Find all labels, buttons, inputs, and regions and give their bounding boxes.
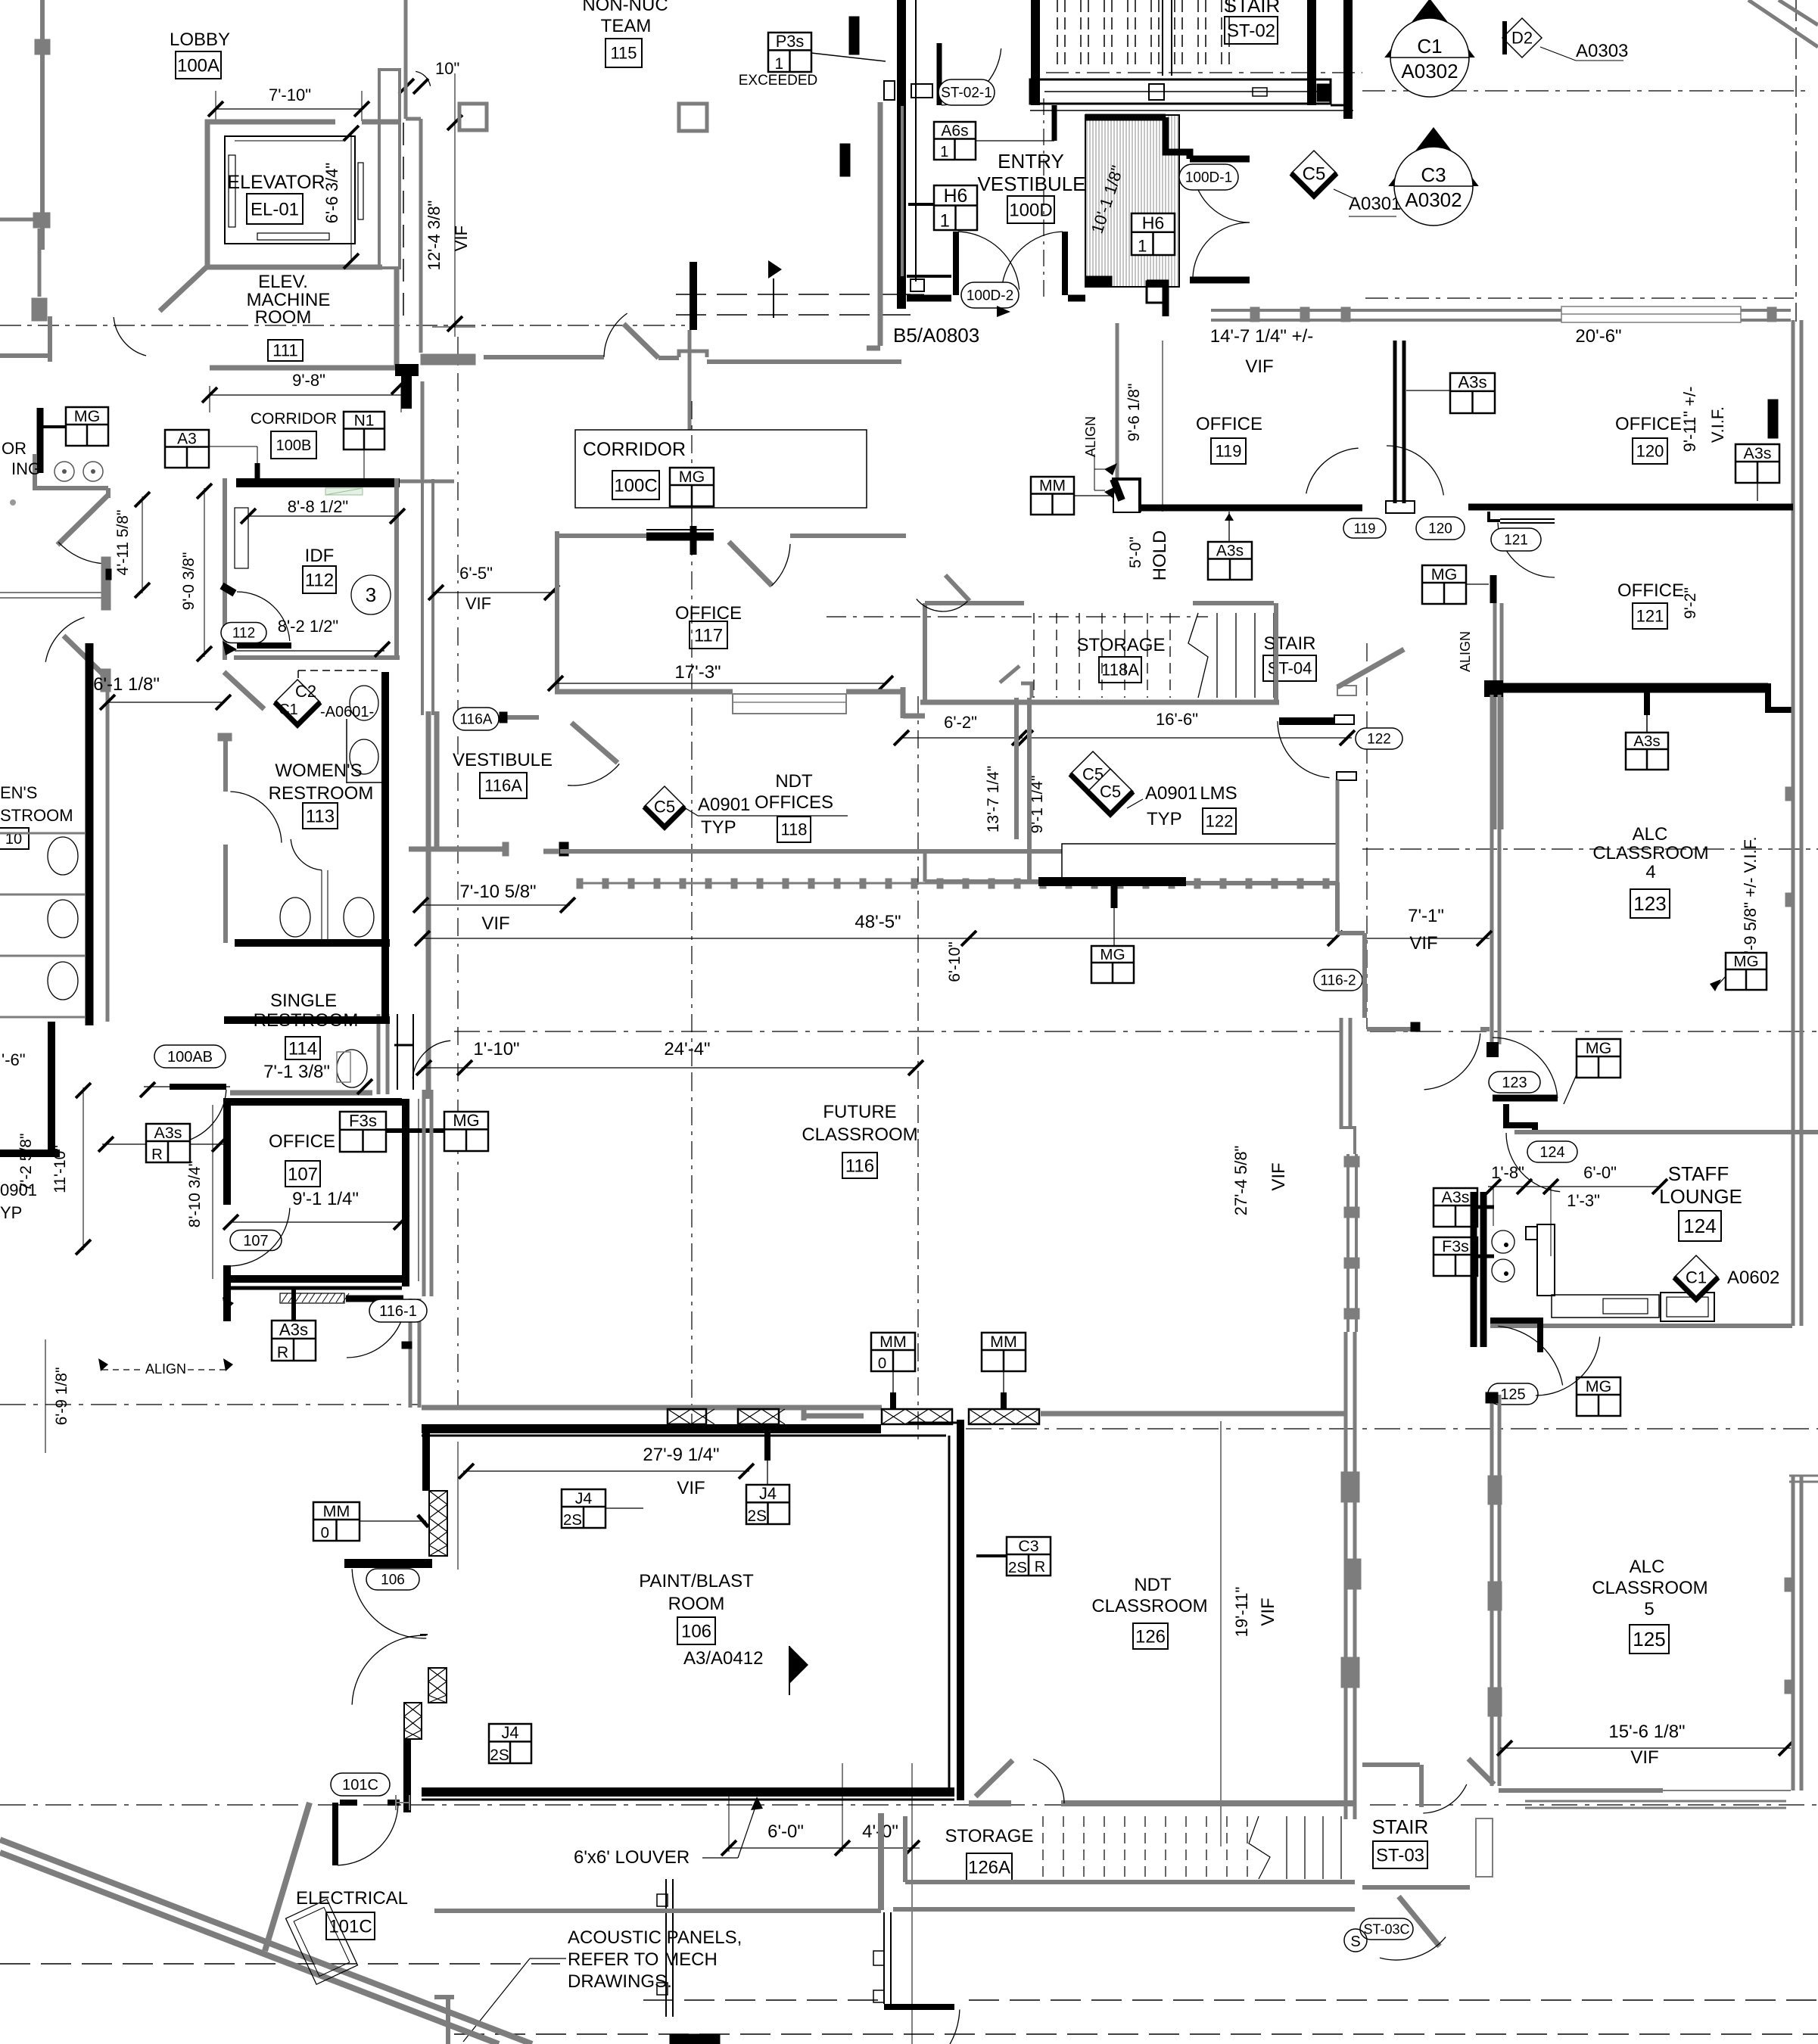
svg-text:A0302: A0302 [1401, 60, 1458, 82]
svg-text:24'-4": 24'-4" [664, 1039, 710, 1059]
svg-text:A0302: A0302 [1405, 188, 1462, 211]
svg-text:7'-1 3/8": 7'-1 3/8" [263, 1062, 330, 1082]
svg-text:DRAWINGS.: DRAWINGS. [568, 1971, 672, 1992]
svg-text:'-6": '-6" [2, 1050, 26, 1069]
ndt offices south wall [560, 849, 1062, 854]
stair treads [1057, 0, 1058, 68]
svg-text:A3/A0412: A3/A0412 [683, 1648, 763, 1669]
svg-text:R: R [151, 1146, 163, 1163]
bottom right of electrical: corridor walls [434, 1995, 454, 1999]
svg-text:27'-9 1/4": 27'-9 1/4" [643, 1445, 719, 1465]
door NON-NUC [624, 324, 658, 358]
H frame [394, 1044, 413, 1047]
svg-text:SINGLE: SINGLE [270, 991, 337, 1011]
svg-text:A3s: A3s [1216, 543, 1244, 560]
IDF closet [235, 508, 248, 568]
svg-text:STORAGE: STORAGE [945, 1826, 1034, 1846]
restroom114-116A door frames [377, 1014, 381, 1094]
right wall windows [1792, 681, 1795, 1029]
svg-text:VIF: VIF [1269, 1162, 1289, 1190]
svg-text:113: 113 [306, 806, 335, 826]
svg-text:101C: 101C [342, 1777, 378, 1794]
svg-text:OFFICES: OFFICES [755, 792, 833, 813]
office 117 top wall [555, 534, 646, 538]
vestibule top black walls [1085, 114, 1166, 121]
svg-text:124: 124 [1683, 1215, 1716, 1237]
svg-text:MG: MG [679, 468, 705, 486]
svg-text:MM: MM [1039, 478, 1066, 495]
right exterior wall [1792, 320, 1795, 681]
svg-text:2S: 2S [748, 1507, 767, 1525]
svg-text:6'-10": 6'-10" [946, 941, 963, 982]
east window modules [1346, 1154, 1349, 1332]
svg-text:116-1: 116-1 [379, 1303, 417, 1320]
svg-text:100C: 100C [614, 475, 657, 496]
svg-text:C1: C1 [1686, 1268, 1707, 1287]
svg-text:107: 107 [288, 1164, 318, 1184]
svg-text:STAIR: STAIR [1224, 0, 1281, 17]
svg-text:VIF: VIF [677, 1478, 705, 1498]
svg-text:CORRIDOR: CORRIDOR [251, 410, 337, 428]
svg-text:ST-02-1: ST-02-1 [941, 86, 992, 101]
svg-text:P3s: P3s [776, 32, 805, 51]
svg-text:HOLD: HOLD [1150, 530, 1170, 581]
svg-text:125: 125 [1633, 1628, 1665, 1650]
svg-text:A0301: A0301 [1349, 194, 1401, 214]
svg-text:LOBBY: LOBBY [170, 30, 230, 50]
H frame 101C [395, 1795, 397, 1810]
office 107 bottom double wall [223, 1275, 403, 1283]
svg-text:9'-11" +/-: 9'-11" +/- [1680, 387, 1699, 453]
svg-text:V.I.F.: V.I.F. [1708, 406, 1727, 443]
svg-text:11'-10": 11'-10" [51, 1145, 69, 1193]
office 119 black walls [1112, 479, 1140, 512]
svg-text:120: 120 [1428, 521, 1452, 537]
stair right black walls [1307, 0, 1316, 105]
svg-text:ING: ING [11, 459, 41, 478]
NDT classroom left wall [957, 1420, 964, 1800]
svg-text:STORAGE: STORAGE [1077, 635, 1166, 655]
future classroom south gray wall [422, 1405, 882, 1411]
IDF top wall [236, 478, 400, 487]
svg-text:ALC: ALC [1633, 824, 1668, 845]
niche walls [1014, 698, 1019, 839]
grid line offices top [1365, 297, 1794, 299]
svg-text:5'-0": 5'-0" [1127, 537, 1144, 568]
svg-text:9'-6 1/8": 9'-6 1/8" [1125, 384, 1143, 442]
vertical grid right edge [1795, 0, 1797, 322]
svg-text:CLASSROOM: CLASSROOM [1592, 843, 1708, 863]
svg-text:1'-8": 1'-8" [1491, 1163, 1524, 1182]
right wall lounge [1792, 1029, 1795, 1326]
down to NDT classroom [1344, 1332, 1348, 1414]
svg-text:VIF: VIF [1258, 1598, 1278, 1626]
svg-text:VIF: VIF [1409, 933, 1437, 954]
horizontal grid future classroom top y1363 [454, 1031, 1340, 1032]
svg-text:100A: 100A [177, 55, 219, 76]
IDF door [237, 642, 291, 649]
svg-text:A0602: A0602 [1727, 1268, 1779, 1288]
svg-text:ROOM: ROOM [668, 1594, 725, 1614]
svg-text:111: 111 [272, 341, 297, 360]
svg-text:115: 115 [610, 44, 637, 63]
MG under LMS [1091, 946, 1134, 983]
svg-text:ALIGN: ALIGN [1083, 416, 1098, 457]
117 SE corner step [901, 687, 906, 718]
corridor Z-bend with doors [58, 495, 108, 545]
svg-text:6'x6' LOUVER: 6'x6' LOUVER [574, 1847, 690, 1868]
svg-text:48'-5": 48'-5" [855, 912, 901, 932]
svg-text:8'-10 3/4": 8'-10 3/4" [186, 1161, 204, 1228]
svg-text:8'-8 1/2": 8'-8 1/2" [288, 497, 349, 516]
svg-text:VIF: VIF [1630, 1747, 1658, 1768]
svg-text:125: 125 [1500, 1386, 1525, 1403]
svg-text:F3s: F3s [1442, 1237, 1469, 1255]
wall left of storage [878, 1813, 884, 1910]
svg-text:C5: C5 [1303, 163, 1326, 184]
svg-text:C1: C1 [1417, 35, 1442, 58]
svg-text:116A: 116A [484, 776, 522, 795]
electrical room [331, 1773, 390, 1796]
svg-text:EXCEEDED: EXCEEDED [739, 73, 818, 89]
svg-text:9'-8": 9'-8" [292, 371, 325, 390]
horizontal grid left y1856 [0, 1404, 421, 1405]
svg-text:6'-0": 6'-0" [767, 1822, 804, 1842]
svg-text:TYP: TYP [701, 817, 736, 838]
svg-text:7'-10": 7'-10" [269, 86, 311, 104]
machine room [160, 265, 209, 311]
svg-text:WOMEN'S: WOMEN'S [275, 761, 362, 781]
storage bottom wall [920, 700, 1279, 705]
svg-text:10": 10" [435, 59, 459, 78]
svg-text:106: 106 [381, 1573, 405, 1588]
svg-text:OFFICE: OFFICE [1615, 414, 1682, 434]
LMS band rect [1062, 844, 1338, 883]
svg-text:1: 1 [940, 144, 948, 160]
storage top wall [969, 1800, 1011, 1806]
svg-text:MG: MG [1586, 1377, 1611, 1395]
svg-text:VESTIBULE: VESTIBULE [977, 173, 1085, 195]
svg-text:MM: MM [323, 1502, 350, 1520]
svg-text:124: 124 [1539, 1144, 1564, 1161]
svg-text:ELEVATOR: ELEVATOR [227, 172, 325, 193]
svg-text:NON-NUC: NON-NUC [582, 0, 668, 15]
svg-text:120: 120 [1636, 442, 1664, 461]
alc4 top black wall [1498, 683, 1768, 693]
dashed centerline office117/119 [827, 616, 1208, 618]
svg-text:8'-2 1/2": 8'-2 1/2" [278, 617, 339, 636]
svg-text:C3: C3 [1421, 163, 1446, 186]
section markers [1384, 0, 1475, 97]
svg-text:VIF: VIF [1245, 356, 1273, 377]
svg-text:C5: C5 [1100, 782, 1121, 801]
entry mat [1043, 98, 1044, 299]
svg-text:100B: 100B [276, 437, 312, 454]
center-bottom wall pair [665, 1879, 667, 2017]
svg-text:S: S [1350, 1934, 1360, 1950]
svg-text:J4: J4 [759, 1484, 777, 1503]
staff lounge top wall [1506, 1104, 1535, 1132]
west boundary future classroom [418, 1099, 419, 1281]
svg-text:0901: 0901 [0, 1181, 37, 1199]
svg-text:121: 121 [1636, 607, 1664, 626]
vertical centerline x914 [691, 401, 693, 1073]
svg-text:VESTIBULE: VESTIBULE [453, 750, 553, 770]
svg-text:TEAM: TEAM [601, 16, 652, 36]
svg-text:118A: 118A [1101, 661, 1139, 680]
door 122 [1279, 717, 1334, 725]
NON-NUC bottom wall [484, 355, 604, 359]
svg-text:20'-6": 20'-6" [1575, 326, 1621, 347]
paint blast top black wall [422, 1424, 881, 1433]
svg-text:4: 4 [1645, 862, 1655, 882]
restroom 114 bottom wall [230, 1090, 372, 1096]
svg-text:EN'S: EN'S [0, 783, 37, 802]
A6s tag [934, 122, 976, 160]
svg-text:6'-1 1/8": 6'-1 1/8" [93, 674, 160, 695]
ndt classroom right wall [1344, 1414, 1348, 1819]
svg-text:ALIGN: ALIGN [1458, 631, 1473, 672]
svg-text:MG: MG [1733, 953, 1758, 970]
svg-text:3: 3 [366, 583, 376, 606]
treads [1042, 1816, 1044, 1879]
svg-text:IDF: IDF [305, 546, 335, 566]
svg-text:CLASSROOM: CLASSROOM [802, 1125, 917, 1145]
svg-text:MG: MG [1100, 946, 1125, 963]
svg-text:6'-6 3/4": 6'-6 3/4" [322, 163, 341, 224]
svg-text:14'-7 1/4" +/-: 14'-7 1/4" +/- [1210, 326, 1314, 347]
elevator car [225, 136, 355, 244]
svg-text:EL-01: EL-01 [251, 199, 299, 219]
svg-text:A6s: A6s [941, 123, 968, 140]
H6 tag [934, 185, 977, 231]
svg-text:C2: C2 [295, 682, 316, 701]
wall 119/120 [1393, 341, 1397, 503]
svg-text:ST-03C: ST-03C [1363, 1921, 1409, 1937]
1-10 leader arc [412, 1041, 450, 1078]
svg-text:101C: 101C [328, 1916, 372, 1937]
B5 wall verticals [878, 102, 883, 346]
svg-text:27'-4 5/8": 27'-4 5/8" [1231, 1146, 1250, 1216]
single restroom 114 [224, 1016, 390, 1024]
ST-04 right walls + diagonal [1274, 603, 1278, 702]
svg-text:C3: C3 [1018, 1537, 1038, 1555]
svg-text:OFFICE: OFFICE [1196, 414, 1262, 434]
ndt window band [577, 882, 1338, 885]
svg-text:VIF: VIF [481, 913, 509, 934]
svg-text:126: 126 [1135, 1626, 1166, 1647]
svg-text:A3s: A3s [279, 1321, 308, 1339]
svg-text:MM: MM [990, 1333, 1017, 1351]
svg-text:OFFICE: OFFICE [269, 1131, 335, 1152]
stair rails [1162, 0, 1163, 76]
door 116-1 [346, 1296, 403, 1302]
svg-text:107: 107 [243, 1233, 268, 1249]
MG box alc4 [1726, 953, 1767, 990]
svg-text:LOUNGE: LOUNGE [1659, 1185, 1742, 1208]
svg-text:17'-3": 17'-3" [674, 662, 721, 683]
svg-text:OR: OR [2, 439, 26, 458]
svg-text:N1: N1 [354, 412, 375, 430]
svg-text:16'-6": 16'-6" [1156, 710, 1198, 729]
svg-text:-A0601-: -A0601- [320, 704, 374, 720]
green hatch [325, 488, 363, 495]
svg-text:STAIR: STAIR [1372, 1815, 1429, 1838]
office 117 south wall [555, 689, 733, 695]
svg-text:4'-11 5/8": 4'-11 5/8" [114, 510, 132, 576]
stair left black wall [897, 0, 906, 309]
svg-text:6'-5": 6'-5" [459, 564, 493, 583]
svg-text:FUTURE: FUTURE [823, 1102, 896, 1122]
svg-text:STAFF: STAFF [1668, 1162, 1729, 1185]
svg-text:6'-9 1/8": 6'-9 1/8" [53, 1367, 70, 1426]
corridor lower gray wall [434, 1909, 881, 1913]
svg-text:CLASSROOM: CLASSROOM [1091, 1596, 1207, 1616]
sinks corridor [54, 462, 74, 481]
ndt classroom top wall [1041, 1411, 1346, 1417]
svg-text:9'-1 1/4": 9'-1 1/4" [292, 1189, 359, 1209]
svg-text:ACOUSTIC PANELS,: ACOUSTIC PANELS, [568, 1927, 742, 1948]
svg-text:116A: 116A [460, 712, 493, 728]
office 117 left wall [555, 531, 559, 692]
svg-text:106: 106 [681, 1621, 711, 1641]
svg-text:19'-11": 19'-11" [1232, 1587, 1251, 1638]
landing band [1031, 0, 1040, 105]
svg-text:R: R [277, 1344, 288, 1361]
svg-text:A3: A3 [177, 431, 197, 448]
svg-text:7'-1": 7'-1" [1408, 906, 1444, 926]
svg-text:REFER TO MECH: REFER TO MECH [568, 1949, 718, 1970]
corridor double wall right of IDF [404, 0, 408, 119]
svg-text:121: 121 [1504, 533, 1528, 549]
LMS right wall + south walls [1336, 780, 1340, 882]
diagonal NE of stair [1337, 649, 1404, 687]
svg-text:RESTROOM: RESTROOM [254, 1010, 359, 1031]
svg-text:15'-6 1/8": 15'-6 1/8" [1608, 1722, 1685, 1742]
wall 120/121 [1468, 504, 1793, 511]
svg-text:1: 1 [774, 55, 783, 73]
svg-text:6'-0": 6'-0" [1583, 1163, 1617, 1182]
svg-text:TYP: TYP [1147, 809, 1182, 829]
svg-text:VIF: VIF [465, 594, 491, 613]
svg-text:0: 0 [878, 1355, 886, 1372]
svg-text:117: 117 [694, 625, 723, 646]
svg-text:J4: J4 [575, 1489, 593, 1507]
svg-text:119: 119 [1215, 442, 1241, 461]
office 119 left wall [1116, 323, 1119, 479]
hatch strip [282, 1293, 349, 1302]
counter [1552, 1295, 1659, 1318]
svg-text:1'-10": 1'-10" [473, 1039, 519, 1059]
ALC5 left wall [1490, 1395, 1494, 1786]
svg-text:H6: H6 [944, 186, 968, 207]
svg-text:122: 122 [1206, 812, 1234, 831]
svg-text:ELEV.: ELEV. [258, 272, 308, 292]
svg-text:RESTROOM: RESTROOM [269, 783, 374, 804]
svg-text:2S: 2S [1008, 1560, 1027, 1576]
horizontal grid y2385 [0, 1804, 1287, 1806]
svg-text:PAINT/BLAST: PAINT/BLAST [639, 1571, 754, 1591]
grid line stair/top right [1046, 72, 1362, 73]
svg-text:ALIGN: ALIGN [145, 1361, 186, 1377]
svg-text:C1: C1 [279, 702, 298, 718]
svg-text:12'-4 3/8": 12'-4 3/8" [425, 201, 444, 271]
svg-text:F3s: F3s [349, 1112, 377, 1131]
svg-text:B5/A0803: B5/A0803 [893, 324, 979, 347]
svg-text:6'-2": 6'-2" [944, 713, 977, 732]
svg-text:100D: 100D [1009, 200, 1052, 220]
storage box [903, 1816, 907, 1882]
horizontal grid y2647 [0, 1963, 560, 1965]
big diagonals [0, 1840, 532, 2044]
svg-text:H6: H6 [1142, 213, 1165, 232]
office 121 left wall [1493, 603, 1497, 829]
svg-text:A0901: A0901 [1145, 783, 1197, 804]
vertical dim ext line x1613 NDT classroom [1220, 1421, 1222, 1846]
grid dashes NON-NUC [676, 294, 912, 295]
svg-text:1: 1 [940, 211, 950, 231]
svg-text:LMS: LMS [1200, 783, 1237, 804]
svg-text:MG: MG [1431, 565, 1457, 583]
svg-text:126A: 126A [968, 1857, 1010, 1878]
svg-text:R: R [1035, 1559, 1045, 1576]
svg-text:112: 112 [232, 626, 255, 642]
svg-text:118: 118 [780, 820, 807, 839]
svg-text:MM: MM [879, 1333, 907, 1351]
window element [733, 694, 846, 714]
svg-text:ALC: ALC [1630, 1557, 1665, 1577]
svg-text:100D-1: 100D-1 [1185, 170, 1232, 186]
door 117 [729, 542, 772, 586]
svg-text:116: 116 [845, 1156, 874, 1176]
svg-text:CORRIDOR: CORRIDOR [583, 439, 686, 460]
svg-text:119: 119 [1354, 521, 1376, 536]
svg-text:C5: C5 [654, 798, 675, 817]
office 107 walls [223, 1098, 402, 1106]
svg-text:112: 112 [305, 570, 334, 590]
ALC5 left wall modules [1488, 1476, 1502, 1504]
svg-text:MG: MG [453, 1111, 479, 1130]
lounge bottom wall [1490, 1324, 1792, 1328]
svg-text:A3s: A3s [1458, 373, 1486, 392]
svg-text:116-2: 116-2 [1320, 973, 1356, 989]
vertical grid x605 [457, 337, 459, 1408]
svg-text:YP: YP [0, 1203, 22, 1222]
svg-text:STAIR: STAIR [1264, 633, 1316, 654]
east window wall modules NDT [1341, 1472, 1359, 1502]
svg-text:ENTRY: ENTRY [998, 150, 1064, 173]
elevator room walls [205, 120, 335, 125]
svg-text:J4: J4 [501, 1723, 518, 1742]
black wall bottom + door [884, 2004, 954, 2010]
svg-text:122: 122 [1367, 732, 1391, 748]
door 126A [976, 1760, 1013, 1797]
svg-text:MG: MG [1586, 1039, 1611, 1057]
paint blast bottom wall [422, 1787, 954, 1797]
black wall segment south LMS [1038, 877, 1186, 886]
svg-text:A0303: A0303 [1576, 41, 1628, 61]
top right corner diagonals [1748, 0, 1818, 47]
svg-text:7'-10 5/8": 7'-10 5/8" [459, 882, 536, 902]
svg-text:5: 5 [1644, 1599, 1654, 1619]
C5 diamond top right [1291, 151, 1337, 196]
svg-text:A3s: A3s [154, 1124, 182, 1142]
svg-text:ST-03: ST-03 [1376, 1845, 1424, 1865]
svg-text:ROOM: ROOM [255, 307, 312, 328]
IDF walls [223, 478, 227, 660]
black thin wall pair [883, 1912, 885, 2004]
wall below 116-2 [1340, 1018, 1343, 1129]
